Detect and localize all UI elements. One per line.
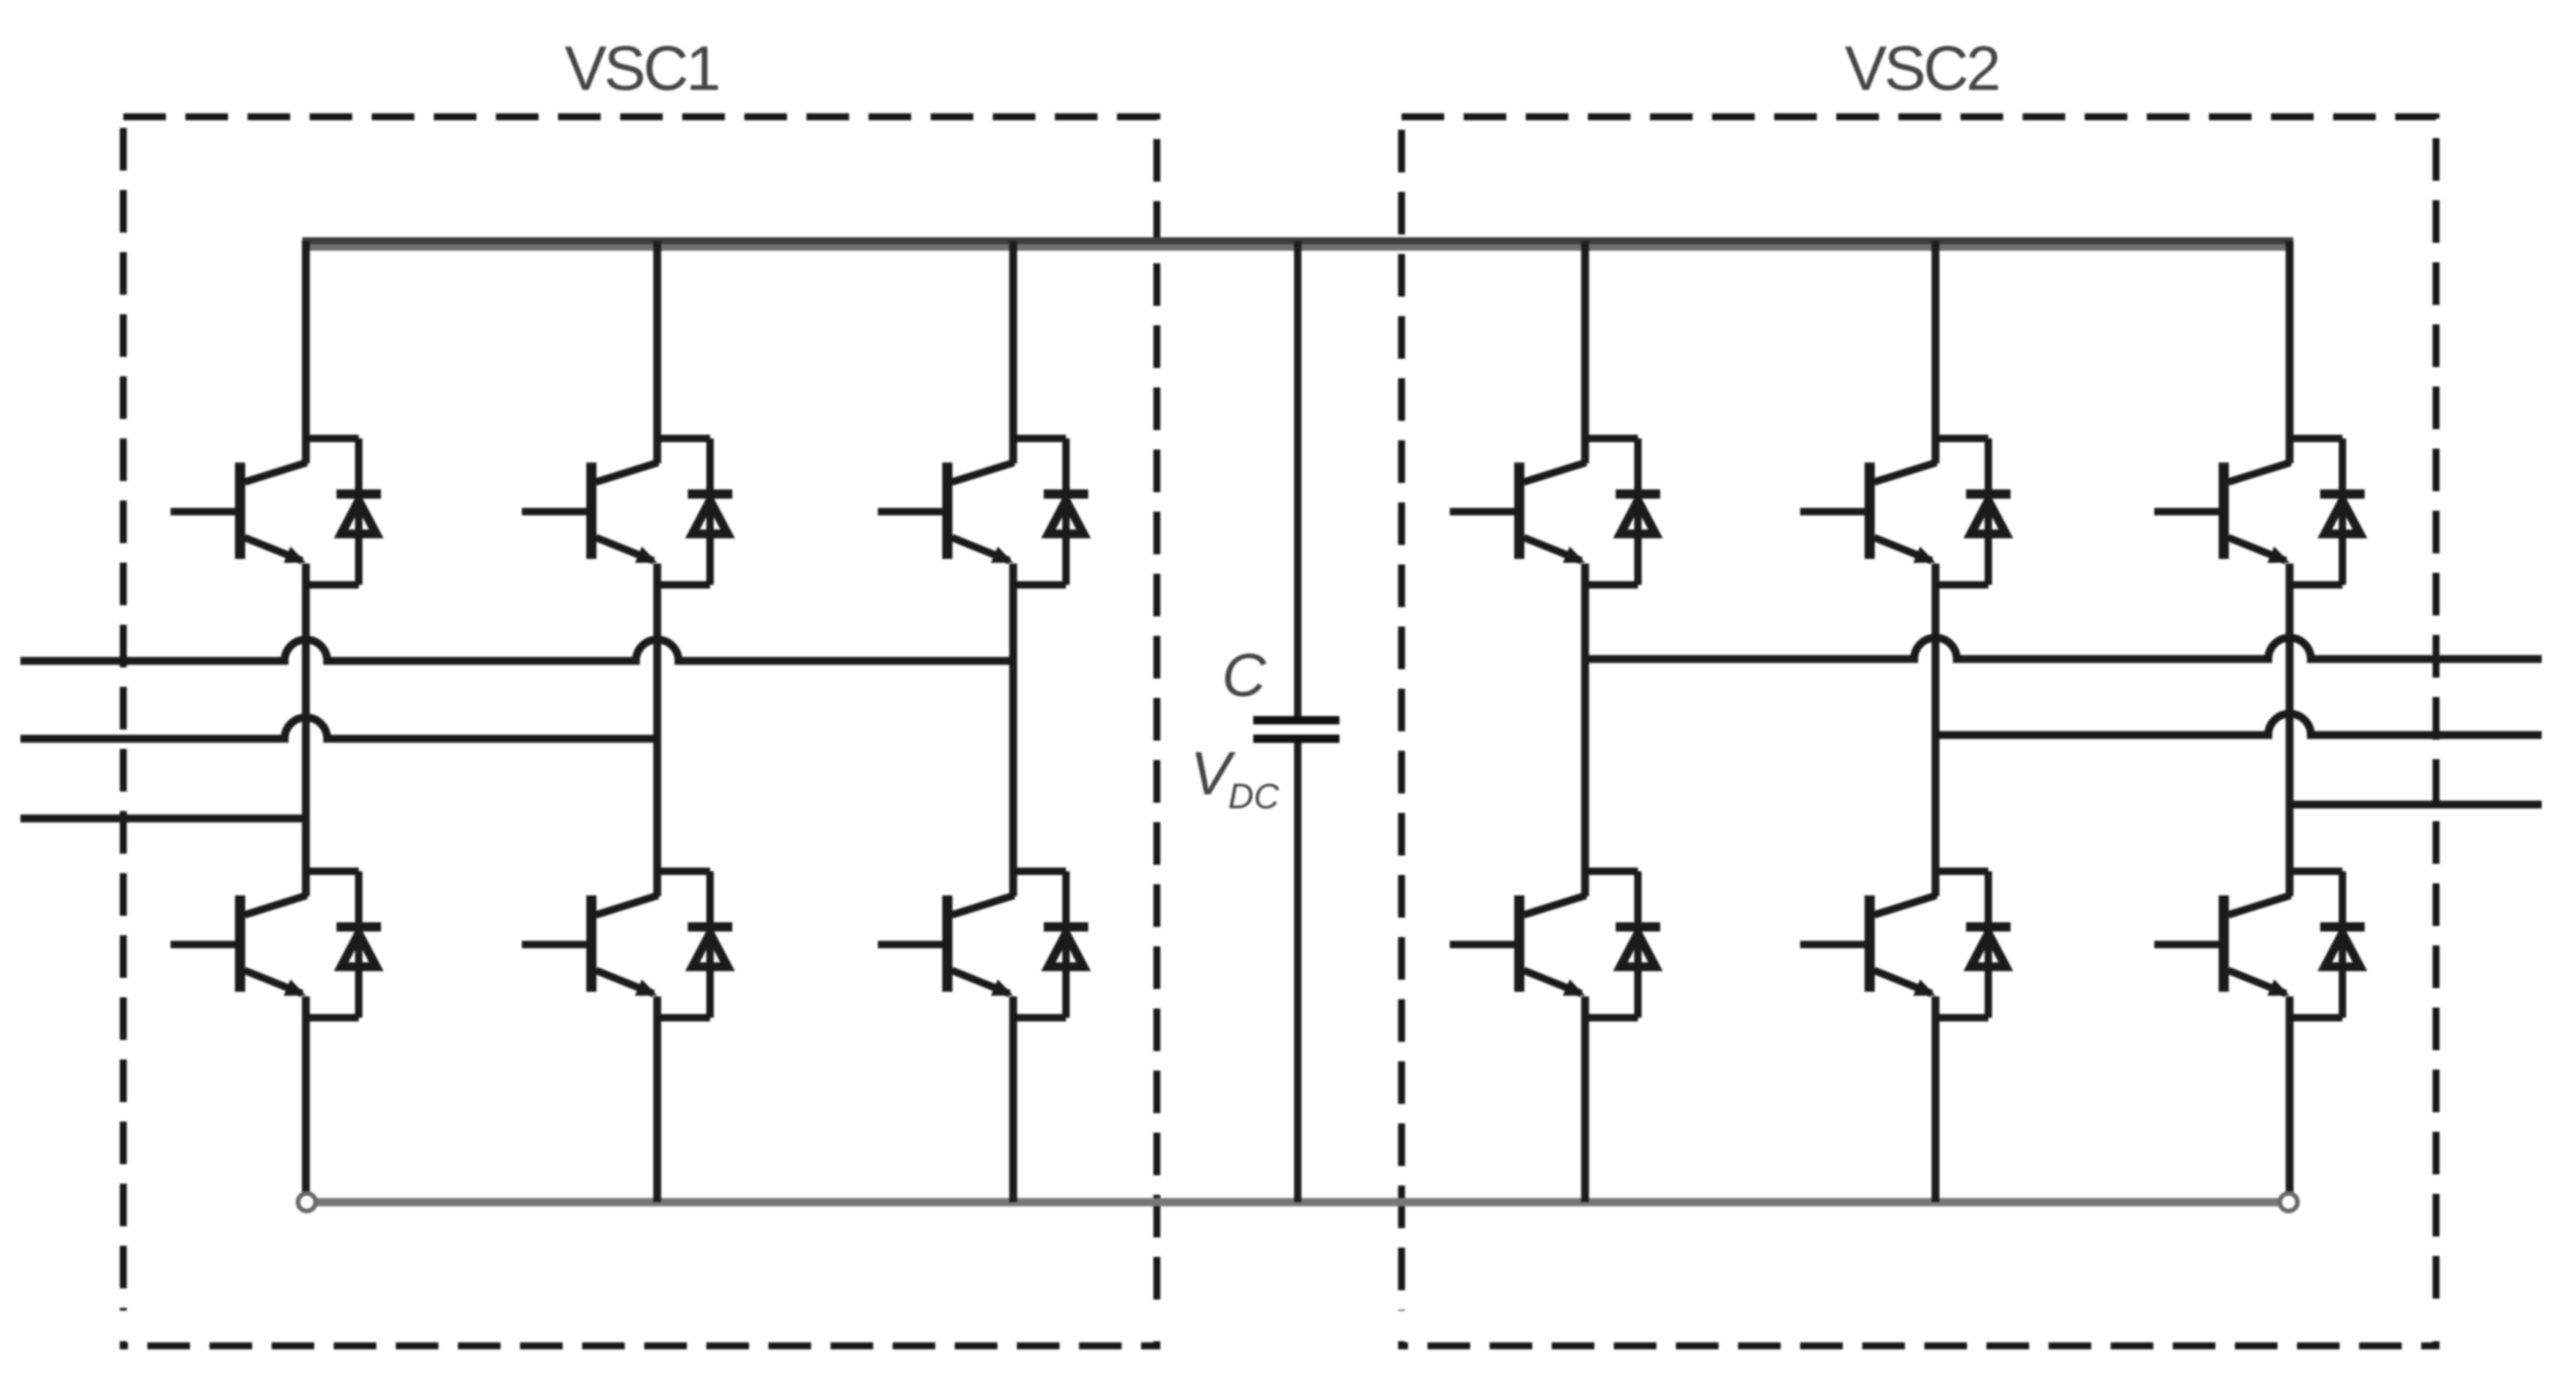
svg-text:C: C: [1222, 640, 1267, 709]
svg-text:VSC2: VSC2: [1845, 33, 1999, 104]
svg-text:VSC1: VSC1: [565, 33, 718, 104]
svg-text:DC: DC: [1228, 778, 1279, 817]
